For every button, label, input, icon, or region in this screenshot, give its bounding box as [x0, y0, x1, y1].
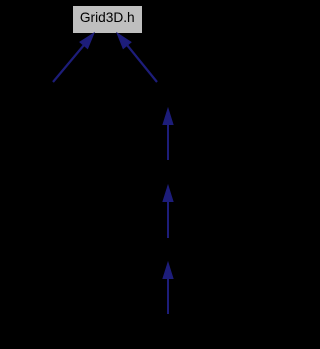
edge arrows — [0, 0, 239, 349]
edge row3 -> row2 : shaft — [167, 124, 169, 160]
edge row4 -> row3 : shaft — [167, 201, 169, 238]
edge row5 -> row4 : arrowhead — [163, 263, 173, 279]
node Grid3D.h (root) — [73, 6, 142, 33]
edge row5 -> row4 : shaft — [167, 278, 169, 314]
edge row4 -> row3 : arrowhead — [163, 186, 173, 202]
edge right node -> Grid3D.h : shaft — [127, 45, 157, 82]
edge left node -> Grid3D.h : shaft — [53, 45, 84, 82]
edge left node -> Grid3D.h : arrowhead — [80, 33, 94, 49]
edge row3 -> row2 : arrowhead — [163, 109, 173, 125]
edge right node -> Grid3D.h : arrowhead — [117, 33, 131, 49]
